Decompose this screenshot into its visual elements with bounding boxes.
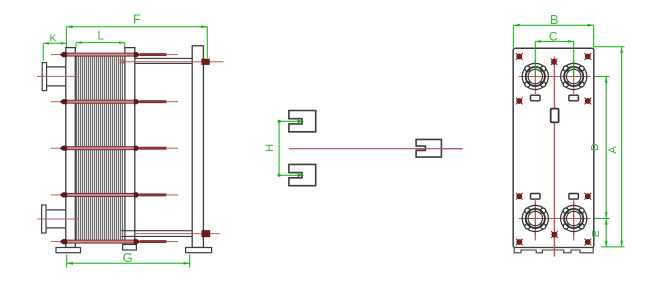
dimension L line: [76, 41, 125, 47]
carrying bar end bolt: [202, 59, 209, 64]
svg-text:D: D: [589, 143, 601, 151]
stud bolt top-left: [516, 53, 523, 60]
stud bolt top-right: [584, 53, 591, 60]
lower nozzle pipe: [46, 210, 66, 228]
guide bar end bolt: [202, 231, 210, 237]
tie bolt row 3: [51, 146, 178, 151]
fixed plate foot: [56, 248, 81, 253]
section centerline over detail: [416, 148, 463, 150]
upper nozzle flange plate: [42, 63, 46, 91]
dimension F line: [66, 25, 207, 58]
C extension line into left port: [534, 41, 536, 76]
support column foot: [186, 248, 212, 253]
svg-text:C: C: [549, 29, 558, 43]
svg-text:L: L: [97, 28, 104, 42]
dimension K line: [43, 42, 66, 61]
guide bar centerline: [136, 233, 220, 235]
port top-right: [557, 60, 590, 94]
slot under top-right port: [569, 95, 579, 101]
stud bolt upper-right: [584, 98, 591, 105]
svg-text:E: E: [590, 230, 602, 237]
dimension H line: [278, 120, 281, 177]
dimension D line: [605, 77, 608, 219]
frame plate face: [513, 48, 594, 247]
stud bolt upper-left: [516, 98, 523, 105]
carrying bar top: [135, 58, 192, 63]
fixed frame plate: [66, 48, 76, 248]
bottom port row centerline: [519, 218, 590, 220]
svg-text:K: K: [49, 32, 56, 44]
top port row centerline: [519, 76, 590, 78]
slot above bottom-right port: [569, 194, 579, 200]
upper carrying bar section: [289, 111, 316, 132]
tie bolt row 5: [51, 239, 178, 244]
dimension B line: [513, 24, 593, 48]
dimension G line: [67, 255, 190, 268]
dimension E extension bottom: [601, 246, 625, 248]
section centerline: [289, 148, 463, 150]
lower nozzle flange plate: [42, 205, 46, 233]
slot above bottom-left port: [531, 194, 541, 200]
svg-text:B: B: [550, 12, 559, 27]
stud bolt lower-left: [516, 193, 523, 200]
upper nozzle centerline: [37, 75, 79, 77]
port bottom-right: [557, 202, 590, 236]
tie bolt row 1: [51, 52, 178, 57]
dimension E line: [605, 219, 608, 247]
stud bolt bottom-center: [551, 231, 558, 238]
dimension D extension top: [594, 76, 610, 78]
support column: [192, 46, 203, 248]
svg-text:H: H: [264, 144, 276, 152]
tie bolt row 2: [51, 99, 178, 104]
upper nozzle pipe: [47, 67, 66, 86]
dimension A line: [620, 47, 623, 247]
movable plate guide shoe: [123, 245, 137, 251]
svg-text:F: F: [133, 12, 141, 27]
plate pack bottom edge: [75, 241, 123, 243]
carrying bar hidden lines through pack: [120, 59, 135, 61]
plate pack stripes: [75, 56, 123, 242]
C extension line into right port: [573, 41, 575, 76]
port bottom-left: [519, 202, 552, 236]
dimension D extension bottom: [594, 218, 610, 220]
stud bolt lower-right: [584, 193, 591, 200]
slot under top-left port: [531, 95, 541, 101]
svg-text:A: A: [607, 146, 619, 154]
lower guide bar section: [289, 164, 316, 185]
base foot strip: [514, 248, 593, 253]
stud bolt top-center: [551, 58, 558, 65]
lower bar slot arrow: [279, 174, 304, 177]
middle lifting slot: [551, 109, 559, 123]
guide bar bottom: [121, 231, 192, 237]
carrying bar centerline: [122, 61, 224, 63]
upper bar slot arrow: [279, 120, 304, 123]
bottom-left port vertical centerline: [534, 200, 536, 241]
bottom-right port vertical centerline: [573, 200, 575, 241]
stud bolt bottom-left: [516, 239, 523, 246]
port top-left: [519, 60, 552, 94]
bar section detail (right): [416, 139, 441, 157]
dimension C line: [535, 40, 573, 43]
plate vertical centerline: [553, 57, 555, 257]
tie bolt row 4: [51, 192, 178, 197]
svg-text:G: G: [123, 250, 133, 265]
dimension A extension top: [594, 46, 625, 48]
lower nozzle centerline: [38, 218, 80, 220]
movable frame plate: [125, 48, 135, 245]
stud bolt bottom-right: [584, 239, 591, 246]
